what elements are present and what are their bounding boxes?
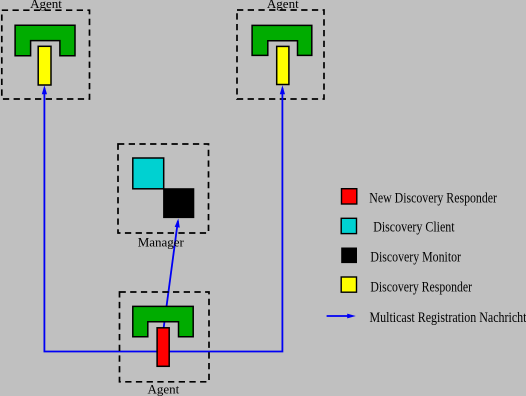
svg-text:Discovery Responder: Discovery Responder <box>370 280 472 296</box>
agent bottom green bridge shape <box>133 306 193 336</box>
agent box top-left (dashed) <box>2 10 90 99</box>
svg-text:Agent: Agent <box>267 0 299 11</box>
agent top-left yellow responder rect <box>38 46 51 85</box>
agent top-right yellow responder rect <box>277 46 289 84</box>
agent top-left green bridge shape <box>15 25 75 55</box>
agent bottom red new responder rect <box>157 328 169 367</box>
arrowhead up into black monitor square <box>175 219 180 228</box>
legend yellow square <box>341 277 356 292</box>
legend arrowhead <box>347 314 356 319</box>
agent box bottom (dashed) <box>120 292 210 382</box>
svg-text:Discovery Client: Discovery Client <box>373 220 454 236</box>
arrowhead up into top-right yellow rect <box>280 85 285 94</box>
blue multicast route polyline <box>44 88 282 352</box>
svg-text:Agent: Agent <box>30 0 62 11</box>
manager black discovery monitor square <box>163 188 194 218</box>
legend cyan square <box>341 218 356 233</box>
arrowhead up into top-left yellow rect <box>42 85 47 94</box>
agent top-right green bridge shape <box>252 25 312 55</box>
svg-text:Agent: Agent <box>148 382 180 396</box>
manager cyan discovery client square <box>133 158 164 189</box>
diagonal multicast line from red responder to monitor <box>164 221 178 329</box>
legend black square <box>341 248 357 264</box>
legend arrow line <box>327 315 349 317</box>
agent box top-right (dashed) <box>237 10 324 99</box>
legend red square <box>342 189 357 204</box>
svg-text:Manager: Manager <box>138 234 185 249</box>
svg-text:Discovery Monitor: Discovery Monitor <box>370 250 461 266</box>
svg-text:Multicast Registration Nachric: Multicast Registration Nachricht <box>370 310 526 326</box>
manager box (dashed) <box>118 144 209 233</box>
svg-text:New Discovery Responder: New Discovery Responder <box>369 190 497 206</box>
